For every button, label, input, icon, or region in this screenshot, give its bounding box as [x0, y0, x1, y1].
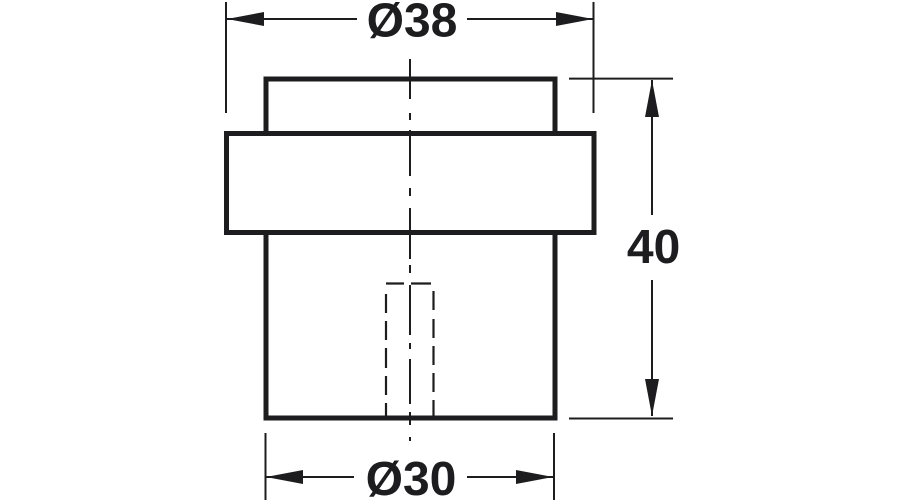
dim Ø30 right extension line	[553, 433, 555, 500]
dim Ø30 left arrowhead	[266, 470, 303, 484]
dim Ø38 left extension line	[225, 2, 227, 113]
dim Ø30 dimension line right segment	[467, 476, 553, 478]
hidden hole top dashed line	[386, 282, 431, 284]
dim 40 dimension line lower segment	[651, 280, 653, 416]
dim 40 top arrowhead	[645, 80, 659, 117]
dim 40 label text	[628, 229, 679, 263]
dim Ø38 right arrowhead	[556, 12, 593, 26]
dim 40 bottom arrowhead	[645, 379, 659, 416]
centerline (vertical dash-dot axis of symmetry)	[409, 59, 411, 441]
hidden hole right dashed line	[432, 291, 434, 417]
dim Ø38 dimension line left segment	[227, 18, 357, 20]
top cap outline	[266, 79, 555, 136]
dim Ø30 right arrowhead	[516, 470, 553, 484]
dim 40 top extension line	[569, 78, 673, 80]
dim Ø30 dimension line left segment	[266, 476, 354, 478]
dim Ø30 label text	[368, 460, 455, 496]
dim 40 dimension line upper segment	[651, 80, 653, 215]
hidden hole left dashed line	[385, 294, 387, 417]
dim Ø38 label text	[369, 2, 456, 38]
dim Ø38 dimension line right segment	[467, 18, 593, 20]
dim Ø30 left extension line	[265, 433, 267, 500]
middle flange rectangle	[227, 134, 595, 233]
dim Ø38 left arrowhead	[227, 12, 264, 26]
dim Ø38 right extension line	[593, 2, 595, 113]
dim 40 bottom extension line	[569, 418, 673, 420]
lower body outline	[266, 232, 555, 418]
